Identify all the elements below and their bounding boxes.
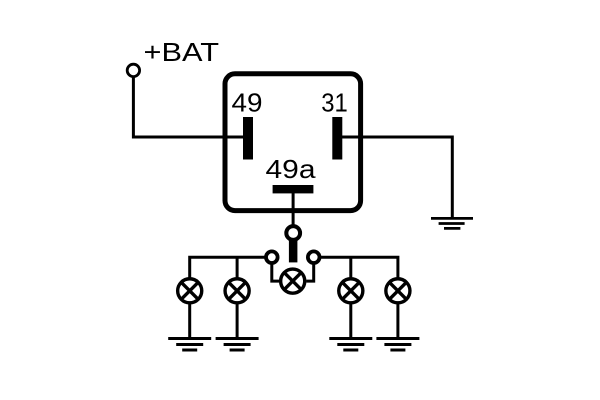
wire lamp L3 to ground [349, 303, 352, 339]
svg-text:31: 31 [321, 87, 348, 117]
terminal pin 49 [243, 117, 253, 160]
ground under L2 [216, 339, 259, 351]
terminal pin 49a [273, 185, 314, 193]
wire right contact to pilot lamp [306, 264, 314, 282]
ground under L1 [168, 339, 211, 351]
wire lamp L1 to ground [188, 303, 191, 339]
wire right bus to lamps L3 L4 [321, 257, 398, 278]
wire left contact to pilot lamp [272, 264, 280, 282]
switch contact right [308, 251, 320, 263]
switch contact left [266, 251, 278, 263]
wire drop to lamp L3 [349, 257, 352, 278]
wire from +BAT to terminal 49 [133, 78, 243, 138]
wire drop to lamp L2 [236, 257, 239, 278]
switch lever [289, 240, 298, 262]
wire lamp L4 to ground [396, 303, 399, 339]
lamp L4 [386, 279, 410, 303]
ground right [431, 218, 473, 228]
svg-text:49: 49 [232, 87, 263, 117]
svg-text:+BAT: +BAT [144, 37, 220, 67]
wire lamp L2 to ground [236, 303, 239, 339]
terminal circle +BAT [127, 64, 139, 76]
ground under L3 [329, 339, 372, 351]
wire from 49a to switch [292, 193, 295, 225]
lamp L3 [339, 279, 363, 303]
wire from terminal 31 to ground [342, 137, 452, 218]
lamp L2 [225, 279, 249, 303]
switch common contact [286, 226, 300, 240]
terminal pin 31 [332, 117, 342, 160]
svg-text:49a: 49a [266, 154, 317, 184]
relay box U1 [225, 74, 361, 211]
wire left bus to lamps L1 L2 [190, 257, 265, 278]
lamp L1 [178, 279, 202, 303]
lamp pilot L5 [281, 269, 305, 293]
ground under L4 [376, 339, 419, 351]
